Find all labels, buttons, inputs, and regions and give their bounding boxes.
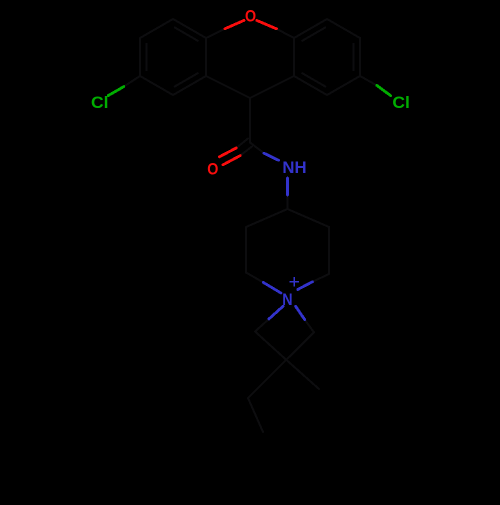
bond N+ down-left (dark half) (255, 319, 269, 332)
right benzo inner double line 1 (302, 28, 325, 41)
bond C9 to carbonyl C (249, 98, 251, 143)
bond O1 right (red half) (257, 20, 277, 28)
svg-text:NH: NH (282, 158, 306, 177)
left benzo ring left edge (139, 38, 141, 76)
wire: carbon skeleton bonds (dark) (124, 19, 377, 432)
chain A1-A2 (255, 332, 287, 361)
svg-text:O: O (245, 7, 256, 25)
bond C-N amide (dark half) (250, 143, 264, 154)
bond O1-C (dark half, left) (206, 29, 225, 38)
bond O1-C (dark half, right) (276, 29, 294, 38)
left benzo inner double line 1 (175, 28, 198, 41)
bond C=O upper line (red half) (219, 148, 236, 157)
plus sign of N+ (290, 281, 298, 283)
svg-text:Cl: Cl (91, 93, 109, 112)
left benzo inner double line 3 (175, 73, 198, 86)
central ring lower-left (206, 76, 250, 98)
left benzo ring top edge (173, 19, 206, 38)
central ring lower-right (250, 76, 294, 98)
bond C=O lower line (red half) (223, 156, 240, 165)
chain B2-B3 (248, 365, 281, 398)
chain B1-B2 (281, 332, 314, 365)
right benzo ring lower-right edge (327, 76, 360, 95)
colored half-bonds (219, 20, 276, 164)
bond NH-C4 (dark half) (287, 195, 289, 209)
right benzo inner double line 3 (302, 73, 325, 86)
piperidinium ring C4-C3 (246, 209, 288, 227)
left benzo ring lower-left edge (140, 76, 173, 95)
bond N+ up-right (blue half) (298, 282, 313, 290)
right benzo ring top edge (294, 19, 327, 38)
right benzo ring right edge (359, 38, 361, 76)
bond O1 left (red half) (225, 20, 244, 28)
piperidinium ring C4-C5 (288, 209, 330, 227)
bond Cl left (dark half) (124, 76, 140, 87)
right benzo ring upper-right edge (327, 19, 360, 38)
bond N+ up-left (dark half to C2) (246, 273, 263, 283)
bond N+ down-left (blue half) (269, 306, 283, 319)
central ring right side (293, 38, 295, 76)
bond N+ up-right (dark half to C6) (312, 274, 329, 282)
bond C=O upper line (dark half) (236, 139, 248, 148)
central ring left side (205, 38, 207, 76)
chain B3-B4 (248, 398, 263, 432)
bond Cl left (green half) (108, 87, 124, 96)
bond NH down (blue half) (286, 178, 289, 195)
svg-text:N: N (282, 291, 292, 309)
svg-text:Cl: Cl (392, 93, 410, 112)
bond N amide to carbonyl C (blue half) (264, 153, 279, 160)
left benzo ring upper-left edge (140, 19, 173, 38)
bond N+ down-right (dark half) (305, 320, 314, 333)
right benzo ring bottom edge (294, 76, 327, 95)
bond Cl right (green half) (377, 85, 391, 95)
bond C=O lower line (dark half) (240, 146, 252, 155)
bond N+ up-left (blue half) (263, 283, 281, 294)
chain A2-A3 (287, 361, 319, 390)
svg-text:O: O (207, 160, 218, 178)
right benzo inner double line 2 (353, 44, 355, 71)
piperidinium ring C3-C2 (245, 227, 247, 273)
left benzo inner double line 2 (146, 44, 148, 71)
bond Cl right (dark half) (360, 76, 377, 85)
left benzo ring bottom edge (173, 76, 206, 95)
bond N+ down-right (blue half) (296, 306, 305, 319)
piperidinium ring C5-C6 (328, 227, 330, 274)
